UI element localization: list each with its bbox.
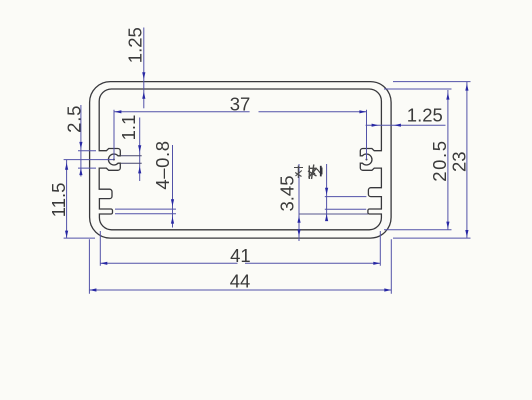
dimension 1.1: dim line bbox=[139, 118, 141, 182]
svg-text:1.1: 1.1 bbox=[118, 115, 139, 141]
dimension 3.45: extension line from rib bottom bbox=[299, 213, 368, 215]
dimension 1.25 top: arrows bbox=[142, 72, 145, 79]
dimension 41: dim line with text gap bbox=[100, 262, 380, 264]
dimension x2 right slot: dim line bbox=[326, 164, 328, 219]
dimension 1.25 top: dim line bbox=[143, 28, 145, 109]
dimension 37: dim line with text gap bbox=[114, 111, 366, 113]
glyph smudge above 3.45 bbox=[294, 166, 303, 179]
screw hole center dot left bbox=[113, 159, 115, 161]
dimension 4-0.8: dim line bbox=[172, 145, 174, 228]
dimension 41: arrows bbox=[100, 262, 107, 265]
inner profile contour with bosses, tabs and ribs bbox=[99, 89, 381, 230]
dimension 2.5: arrows bbox=[79, 142, 82, 149]
svg-text:44: 44 bbox=[230, 271, 251, 292]
dimension 23: arrows bbox=[465, 84, 468, 91]
dimension 4-0.8: arrows bbox=[171, 199, 174, 206]
dimension 37: arrows bbox=[114, 110, 121, 113]
dimension 2.5: extension lines bbox=[78, 151, 96, 168]
svg-text:2.5: 2.5 bbox=[63, 105, 84, 133]
svg-text:1.25: 1.25 bbox=[125, 27, 146, 63]
svg-text:41: 41 bbox=[230, 245, 251, 266]
dimension 44: extension lines bbox=[89, 239, 391, 293]
svg-text:37: 37 bbox=[230, 93, 251, 114]
svg-text:1.25: 1.25 bbox=[407, 105, 443, 126]
dimension 1.25 right: arrows bbox=[372, 124, 379, 127]
dimension 11.5: arrows bbox=[65, 163, 68, 170]
dimension 44: arrows bbox=[89, 288, 96, 291]
dimension 20.5: dim line with text gap bbox=[447, 90, 449, 230]
dimension 4-0.8: extension lines from left rib bbox=[115, 209, 176, 214]
dimension 37: extension lines to screw centers bbox=[114, 110, 367, 160]
dimension 44: dim line with text gap bbox=[89, 289, 391, 291]
dimension x2 right slot: arrows bbox=[325, 188, 328, 195]
dimension 11.5: dim line bbox=[66, 160, 68, 239]
dimension 20.5: extension lines bbox=[384, 89, 452, 230]
dimension 11.5: extension lines bbox=[64, 160, 114, 239]
dimension 3.45: arrows bbox=[297, 216, 300, 223]
dimension 23: extension lines bbox=[393, 82, 471, 239]
dimension 41: extension lines bbox=[100, 231, 380, 266]
dimension 1.25 right: dim line bbox=[366, 124, 446, 126]
dimension 1.1: extension lines from slit bbox=[121, 156, 142, 163]
svg-text:23: 23 bbox=[449, 151, 470, 172]
outer profile contour bbox=[90, 82, 392, 239]
dimension 23: dim line with text gap bbox=[466, 82, 468, 239]
dimension x2 right slot: extension lines bbox=[325, 197, 367, 210]
svg-text:3.45: 3.45 bbox=[277, 175, 298, 211]
svg-text:4–0.8: 4–0.8 bbox=[152, 140, 173, 189]
glyph smudge CJK before 2 bbox=[308, 165, 321, 180]
svg-text:20.5: 20.5 bbox=[429, 139, 450, 181]
svg-text:11.5: 11.5 bbox=[48, 183, 69, 218]
dimension 1.1: arrows bbox=[138, 145, 141, 152]
dimension 2.5: dim line bbox=[80, 105, 82, 177]
screw hole center dot right bbox=[366, 159, 368, 161]
dimension 20.5: arrows bbox=[446, 93, 449, 100]
dimension 3.45: dim line bbox=[298, 164, 300, 241]
